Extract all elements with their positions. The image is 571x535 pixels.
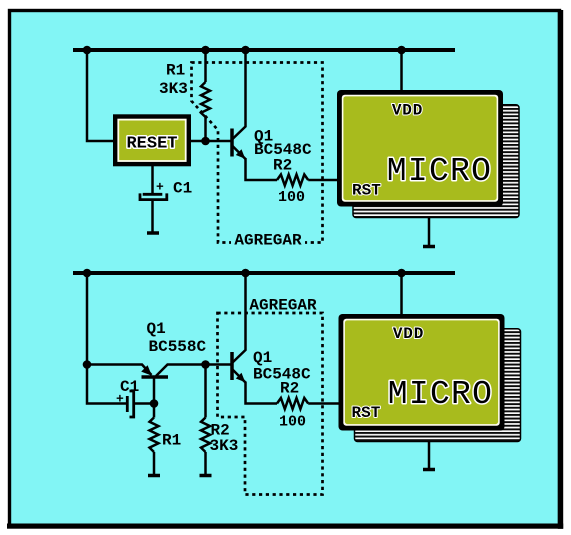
svg-text:Q1: Q1 [147, 320, 166, 338]
svg-text:VDD: VDD [392, 102, 423, 120]
svg-text:R1: R1 [162, 432, 181, 450]
svg-text:3K3: 3K3 [210, 437, 239, 455]
svg-text:C1: C1 [173, 180, 192, 198]
svg-text:BC558C: BC558C [149, 338, 207, 356]
svg-text:100: 100 [279, 414, 306, 431]
svg-text:MICRO: MICRO [387, 153, 493, 190]
svg-text:Q1: Q1 [253, 349, 272, 367]
svg-text:RST: RST [352, 404, 381, 422]
svg-text:3K3: 3K3 [159, 80, 188, 98]
svg-text:VDD: VDD [393, 325, 424, 343]
svg-text:C1: C1 [120, 378, 139, 396]
svg-text:R2: R2 [280, 380, 299, 398]
svg-text:+: + [156, 180, 164, 195]
svg-text:RST: RST [352, 182, 381, 200]
svg-text:AGREGAR: AGREGAR [249, 297, 317, 315]
svg-text:RESET: RESET [126, 135, 177, 154]
svg-text:R2: R2 [273, 157, 292, 175]
svg-text:AGREGAR: AGREGAR [234, 232, 302, 250]
svg-text:R1: R1 [166, 62, 185, 80]
svg-text:100: 100 [278, 189, 305, 206]
svg-text:MICRO: MICRO [388, 376, 494, 413]
